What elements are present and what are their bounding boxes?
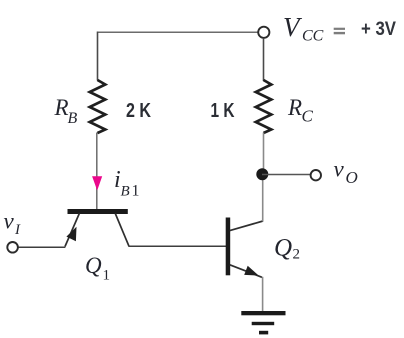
wire output node to vO terminal [262, 174, 311, 176]
svg-text:I: I [14, 222, 21, 238]
svg-text:1: 1 [103, 268, 111, 284]
ground [241, 311, 285, 334]
svg-text:CC: CC [302, 28, 324, 45]
wire RC bottom to output node [263, 133, 265, 174]
svg-text:Q: Q [85, 253, 102, 278]
label Q1 [85, 253, 110, 284]
node vI terminal circle [7, 242, 18, 253]
svg-text:+ 3V: + 3V [361, 19, 396, 40]
wire left vertical from rail to RB [97, 32, 99, 81]
transistor Q1 base bar [68, 209, 128, 214]
current arrow iB1 (magenta) [92, 176, 102, 190]
svg-text:R: R [287, 95, 302, 120]
svg-text:B: B [68, 110, 78, 127]
node VCC terminal circle [258, 27, 269, 38]
svg-text:1: 1 [132, 183, 140, 200]
label Q2 [274, 235, 300, 263]
svg-text:v: v [334, 157, 345, 182]
svg-text:O: O [346, 168, 358, 187]
transistor Q1 emitter arrowhead [66, 227, 76, 241]
wire VCC circle down to RC [263, 38, 265, 81]
transistor Q2 base bar [226, 218, 231, 276]
wire collector vertical up to output node [262, 176, 264, 222]
transistor Q2 emitter diagonal [230, 265, 262, 278]
svg-text:B: B [121, 184, 130, 200]
wire top horizontal VCC rail [98, 31, 259, 33]
wire Q1 to Q2 base [129, 245, 227, 247]
label vI [4, 209, 22, 239]
transistor Q2 emitter arrowhead [244, 266, 258, 276]
svg-text:v: v [4, 209, 15, 234]
wire RB down to Q1 base bar [96, 133, 98, 210]
transistor Q1 left lead diagonal [65, 214, 79, 247]
wire emitter down to ground [262, 277, 264, 312]
svg-text:1 K: 1 K [211, 100, 235, 122]
node junction dot output [256, 168, 268, 180]
label iB1 [114, 167, 140, 200]
wire vI terminal to Q1 [18, 246, 66, 248]
svg-text:R: R [54, 95, 69, 120]
svg-text:Q: Q [274, 235, 292, 262]
transistor Q1 right lead diagonal [115, 214, 129, 247]
svg-text:2 K: 2 K [126, 100, 151, 122]
svg-text:V: V [283, 12, 303, 42]
svg-text:C: C [302, 107, 314, 126]
label RC [287, 95, 314, 126]
label RB [54, 95, 78, 127]
label vO [334, 157, 358, 188]
resistor RB zigzag [90, 80, 106, 133]
label VCC = +3V [283, 12, 396, 45]
resistor RC zigzag [256, 80, 272, 133]
svg-text:2: 2 [293, 247, 301, 263]
node vO terminal circle [311, 170, 321, 180]
transistor Q2 collector diagonal [230, 221, 263, 231]
